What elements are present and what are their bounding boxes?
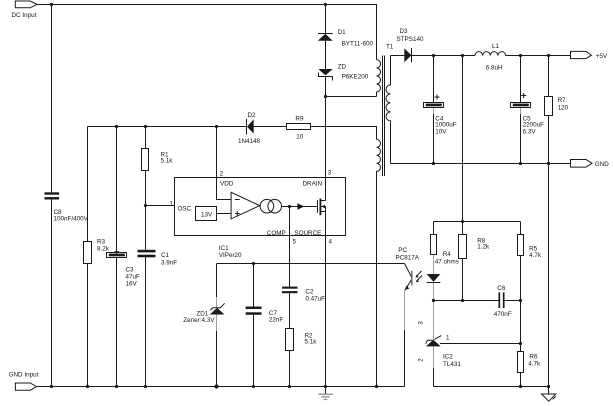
svg-text:IC2: IC2 (443, 353, 453, 360)
svg-text:4.7k: 4.7k (528, 361, 541, 368)
svg-text:6.3V: 6.3V (523, 128, 537, 135)
svg-text:0.47uF: 0.47uF (305, 295, 325, 302)
svg-text:10V: 10V (435, 128, 447, 135)
svg-text:5.1k: 5.1k (305, 338, 318, 345)
svg-text:BYT11-600: BYT11-600 (342, 41, 374, 48)
svg-text:D2: D2 (248, 112, 257, 119)
svg-text:5.1k: 5.1k (161, 158, 174, 165)
svg-text:1N4148: 1N4148 (238, 138, 261, 145)
svg-text:C6: C6 (497, 285, 506, 292)
svg-text:3: 3 (418, 321, 425, 325)
svg-text:120: 120 (558, 104, 569, 111)
svg-text:GND Input: GND Input (9, 372, 39, 379)
svg-text:1.2k: 1.2k (477, 244, 490, 251)
svg-text:3: 3 (328, 169, 332, 176)
svg-text:L1: L1 (492, 43, 500, 50)
svg-text:4: 4 (329, 238, 333, 245)
svg-text:P6KE200: P6KE200 (342, 73, 369, 80)
svg-text:16V: 16V (126, 281, 138, 288)
svg-text:R4: R4 (443, 251, 452, 258)
svg-text:R9: R9 (295, 115, 304, 122)
svg-text:4.7k: 4.7k (529, 252, 542, 259)
svg-text:13V: 13V (201, 212, 213, 219)
svg-text:1: 1 (169, 200, 173, 207)
svg-text:47 ohms: 47 ohms (435, 258, 459, 265)
svg-text:R7: R7 (558, 97, 567, 104)
svg-text:8.2k: 8.2k (97, 246, 110, 253)
svg-text:IC1: IC1 (219, 245, 229, 252)
svg-text:ZD: ZD (338, 64, 347, 71)
svg-text:22nF: 22nF (269, 316, 284, 323)
svg-text:D3: D3 (400, 28, 409, 35)
svg-text:C1: C1 (161, 252, 170, 259)
svg-text:DRAIN: DRAIN (303, 181, 323, 188)
svg-text:1: 1 (446, 334, 450, 341)
svg-text:D1: D1 (338, 29, 347, 36)
svg-text:R6: R6 (529, 353, 538, 360)
svg-text:OSC: OSC (178, 206, 192, 213)
svg-text:Zener:4.3V: Zener:4.3V (183, 317, 215, 324)
svg-text:2: 2 (418, 358, 425, 362)
svg-text:10: 10 (296, 133, 304, 140)
svg-text:C2: C2 (305, 288, 314, 295)
svg-text:SOURCE: SOURCE (294, 230, 321, 237)
svg-text:3.9nF: 3.9nF (161, 259, 177, 266)
svg-text:GND: GND (595, 161, 609, 168)
svg-text:6.8uH: 6.8uH (486, 65, 503, 72)
svg-text:PC: PC (398, 247, 407, 254)
svg-text:5: 5 (293, 238, 297, 245)
svg-text:470nF: 470nF (494, 311, 512, 318)
svg-text:R3: R3 (97, 239, 106, 246)
svg-text:STPS140: STPS140 (397, 36, 424, 43)
svg-text:100nF/400V: 100nF/400V (54, 216, 89, 223)
svg-text:TL431: TL431 (443, 361, 461, 368)
svg-text:COMP: COMP (267, 230, 286, 237)
svg-text:C3: C3 (126, 267, 135, 274)
svg-text:2: 2 (220, 170, 224, 177)
svg-text:PC817A: PC817A (396, 255, 420, 262)
svg-text:47uF: 47uF (126, 274, 141, 281)
svg-text:+5V: +5V (596, 53, 608, 60)
svg-text:VDD: VDD (220, 181, 234, 188)
svg-text:DC Input: DC Input (12, 12, 37, 19)
svg-text:VIPer20: VIPer20 (219, 252, 242, 259)
svg-text:T1: T1 (386, 43, 394, 50)
